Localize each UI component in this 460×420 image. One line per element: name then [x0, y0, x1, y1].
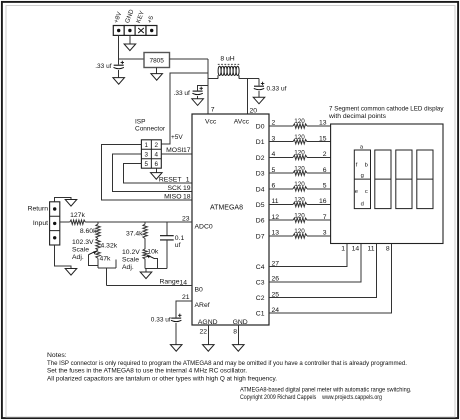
pin number 14 display: [352, 246, 360, 253]
pin number 23: [182, 215, 190, 222]
resistor R8 120: [293, 134, 307, 144]
wire 37.4k to 10k: [144, 239, 146, 249]
svg-text:ARef: ARef: [195, 302, 210, 309]
wire resistor to display segment g: [307, 219, 331, 221]
wire ADC0 rail to U1 pin 23: [85, 221, 192, 223]
svg-text:0.33 uf: 0.33 uf: [151, 316, 171, 323]
wire D2 to resistor: [269, 156, 293, 158]
pin number 4: [272, 151, 276, 158]
label segment dp: [332, 233, 340, 240]
wire Range to U1 pin 14 B0: [106, 285, 192, 287]
wire return pin to ground: [55, 198, 71, 202]
svg-text:e: e: [355, 189, 358, 195]
svg-text:AVcc: AVcc: [234, 118, 250, 125]
svg-text:D0: D0: [256, 124, 265, 131]
wire C1 to display pin 8: [269, 244, 392, 314]
svg-text:.33 uf: .33 uf: [95, 63, 111, 70]
svg-text:g: g: [361, 173, 364, 179]
svg-text:The ISP connector is only req: The ISP connector is only required to pr…: [47, 360, 407, 367]
svg-text:3: 3: [323, 230, 327, 237]
pin number 3: [323, 230, 327, 237]
svg-text:RESET: RESET: [159, 177, 182, 184]
wire D0 to resistor: [269, 125, 293, 127]
wire SCK from ISP pin3 to U1 pin19: [113, 154, 192, 192]
label D2: [256, 155, 265, 162]
wire chain bottom to range line: [105, 268, 107, 286]
svg-text:D4: D4: [256, 186, 265, 193]
wire MOSI from ISP pin4 to U1 pin17: [161, 153, 192, 155]
wire RESET from ISP pin5 to U1 pin1: [124, 163, 193, 183]
wire D3 to resistor: [269, 172, 293, 174]
label C2 value: [174, 90, 190, 97]
svg-text:Copyright 2009 Richard Cappels: Copyright 2009 Richard Cappels www.proje…: [240, 394, 382, 401]
svg-text:ADC0: ADC0: [195, 223, 213, 230]
svg-text:120: 120: [294, 118, 305, 125]
pin number 7: [211, 107, 215, 114]
svg-text:b: b: [365, 163, 368, 169]
wire rail to 37.4k: [144, 222, 146, 224]
resistor R13 120: [293, 212, 307, 222]
svg-text:19: 19: [183, 185, 191, 192]
svg-text:120: 120: [294, 150, 305, 157]
label 10.2V Scale Adj: [122, 249, 140, 271]
label C1: [256, 311, 265, 318]
svg-text:Scale: Scale: [122, 257, 139, 264]
svg-text:MOSI: MOSI: [166, 147, 183, 154]
wire MISO from ISP pin1 to U1 pin18: [102, 145, 193, 201]
svg-text:Notes:: Notes:: [47, 352, 67, 359]
svg-text:10.2V: 10.2V: [122, 249, 140, 256]
wire GND pin 8 to ground: [237, 325, 239, 344]
svg-text:127k: 127k: [70, 212, 85, 219]
svg-text:2: 2: [154, 142, 158, 149]
svg-text:120: 120: [294, 212, 305, 219]
svg-text:ISP: ISP: [135, 119, 145, 126]
svg-text:7: 7: [323, 214, 327, 221]
svg-text:13: 13: [319, 120, 327, 127]
ground: [113, 78, 125, 85]
wire D7 to resistor: [269, 235, 293, 237]
svg-text:37.4k: 37.4k: [126, 231, 143, 238]
label segment e: [332, 186, 336, 193]
svg-text:120: 120: [294, 165, 305, 172]
wire +5V to inductor: [208, 78, 218, 80]
svg-text:D5: D5: [256, 202, 265, 209]
resistor R12 120: [293, 197, 307, 207]
wiper arrow of 47k pot: [88, 251, 96, 255]
connector ISP 2x3 header: [141, 140, 161, 168]
wire C2 to display pin 11: [269, 244, 377, 298]
ground: [253, 97, 265, 104]
wire bottom rail to ground: [145, 269, 147, 272]
wire 7805 ground pin: [156, 68, 158, 74]
wire +5V branch to ISP connector: [161, 73, 208, 144]
label C1 value: [95, 63, 111, 70]
wire 10k wiper to bottom: [155, 259, 158, 269]
svg-text:5: 5: [144, 161, 148, 168]
svg-text:8: 8: [386, 246, 390, 253]
pin number 11: [272, 198, 279, 205]
wire inductor output: [239, 78, 259, 80]
svg-text:4.32k: 4.32k: [101, 243, 118, 250]
wire resistor to display segment e: [307, 188, 331, 190]
pin number 20: [250, 108, 258, 115]
wire resistor to display segment dp: [307, 235, 331, 237]
ground: [151, 173, 163, 180]
label SCK: [168, 185, 182, 192]
pin number 17: [183, 147, 191, 154]
wire ARef U1 pin 21: [176, 301, 192, 318]
label C3 value: [267, 85, 287, 92]
label segment b: [332, 139, 336, 146]
pin number 15: [319, 135, 327, 142]
resistor R1 127k: [70, 212, 86, 224]
label segment g: [332, 218, 336, 225]
ground: [151, 74, 163, 81]
ground: [124, 44, 136, 51]
svg-text:c: c: [365, 189, 368, 195]
ground: [65, 200, 77, 207]
pin number 7: [323, 214, 327, 221]
pin number 5: [323, 183, 327, 190]
display module outline: [331, 124, 443, 244]
svg-text:Connector: Connector: [135, 126, 166, 133]
svg-text:D7: D7: [256, 233, 265, 240]
capacitor C3 0.33 uf at AVcc: [254, 79, 264, 97]
ground: [233, 345, 245, 352]
ground: [203, 345, 215, 352]
label segment a: [332, 123, 336, 130]
wire D6 to resistor: [269, 219, 293, 221]
svg-text:7805: 7805: [149, 57, 164, 64]
wire 47k wiper loop: [88, 255, 98, 266]
segment letters on first digit: [355, 144, 368, 207]
label D3: [256, 171, 265, 178]
wire AGND pin 22 to ground: [207, 325, 209, 344]
svg-text:with decimal points: with decimal points: [328, 113, 387, 120]
capacitor C1 .33 uf at 7805 input: [114, 59, 125, 78]
wire to Vcc bypass cap: [198, 86, 208, 91]
svg-text:3: 3: [144, 152, 148, 159]
connector J1 power input header (+8V GND KEY +5): [113, 8, 157, 35]
svg-text:Adj.: Adj.: [72, 254, 84, 261]
svg-text:D6: D6: [256, 218, 265, 225]
svg-text:uf: uf: [175, 242, 181, 249]
svg-text:1: 1: [186, 177, 190, 184]
potentiometer R4 47k: [96, 250, 111, 262]
wire resistor to display segment d: [307, 172, 331, 174]
svg-text:102.3V: 102.3V: [72, 239, 94, 246]
wire rail to left divider chain: [97, 222, 99, 224]
resistor R9 120: [293, 150, 307, 160]
svg-text:1: 1: [341, 246, 345, 253]
wire ISP pin6 to ground: [155, 168, 157, 172]
svg-text:MISO: MISO: [164, 194, 181, 201]
svg-text:Input: Input: [33, 220, 48, 227]
pin number 6: [272, 183, 276, 190]
pin number 24: [272, 307, 280, 314]
svg-text:D2: D2: [256, 155, 265, 162]
svg-text:.33 uf: .33 uf: [174, 90, 190, 97]
capacitor C4 0.1 uf: [160, 222, 184, 268]
svg-text:8: 8: [233, 328, 237, 335]
pin number 5: [272, 167, 276, 174]
capacitor C5 0.33 uf at ARef: [171, 314, 182, 345]
pin number 27: [272, 260, 280, 267]
svg-text:21: 21: [182, 294, 190, 301]
pin number 14: [179, 279, 187, 286]
ground: [140, 272, 152, 279]
label +5V net: [171, 134, 183, 141]
wire chain bottom: [98, 258, 116, 268]
svg-text:14: 14: [179, 279, 187, 286]
resistor R3 4.32k: [96, 239, 118, 251]
wiper arrow of 10k pot: [147, 255, 155, 259]
label display title: [328, 105, 444, 120]
label D5: [256, 202, 265, 209]
pin number 1 display: [341, 246, 345, 253]
pin number 8: [233, 328, 237, 335]
svg-text:14: 14: [352, 246, 360, 253]
svg-text:B0: B0: [195, 287, 204, 294]
wire resistor to display segment b: [307, 141, 331, 143]
svg-text:0.1: 0.1: [175, 235, 185, 242]
label D1: [256, 139, 265, 146]
svg-text:GND: GND: [233, 319, 248, 326]
svg-text:6: 6: [323, 167, 327, 174]
wire +8V from J1 pin1 down to regulator input: [119, 35, 144, 58]
pin number 12: [272, 214, 280, 221]
title text: [240, 387, 412, 402]
svg-text:120: 120: [294, 228, 305, 235]
svg-text:1: 1: [144, 142, 148, 149]
svg-text:D3: D3: [256, 171, 265, 178]
svg-text:d: d: [361, 202, 364, 208]
svg-text:47k: 47k: [100, 255, 112, 262]
potentiometer R6 10k: [143, 249, 159, 259]
svg-text:120: 120: [294, 197, 305, 204]
regulator U2 7805: [144, 53, 170, 68]
label 102.3V Scale Adj: [72, 239, 94, 261]
wire J1 pin2 to ground: [129, 35, 131, 44]
pin number 2: [272, 120, 276, 127]
svg-text:22: 22: [200, 328, 208, 335]
label segment f: [332, 202, 334, 209]
svg-text:AGND: AGND: [198, 319, 218, 326]
svg-text:C2: C2: [256, 295, 265, 302]
label RESET: [159, 177, 182, 184]
svg-text:8.60k: 8.60k: [80, 228, 97, 235]
svg-text:11: 11: [367, 246, 374, 253]
label segment c: [332, 155, 335, 162]
label ISP Connector: [135, 119, 166, 133]
svg-text:5: 5: [323, 183, 327, 190]
label Range: [159, 278, 179, 285]
wire D4 to resistor: [269, 188, 293, 190]
svg-text:4: 4: [154, 152, 158, 159]
pin number 22: [200, 328, 208, 335]
pin number 19: [183, 185, 191, 192]
resistor R10 120: [293, 165, 307, 175]
wire input pin to 127k: [60, 221, 70, 223]
label C5 value: [151, 316, 171, 323]
label Return: [28, 206, 49, 213]
pin number 16: [319, 198, 327, 205]
svg-text:8 uH: 8 uH: [220, 56, 234, 63]
wire 7805 output to +5V rail: [170, 59, 209, 114]
capacitor C2 .33 uf at Vcc: [192, 87, 203, 99]
svg-text:16: 16: [319, 198, 327, 205]
pin number 26: [272, 276, 280, 283]
svg-text:ATMEGA8-based digital panel me: ATMEGA8-based digital panel meter with a…: [240, 387, 412, 394]
ground: [192, 99, 204, 106]
svg-text:Set the fuses in the ATMEGA8 t: Set the fuses in the ATMEGA8 to use the …: [47, 368, 247, 375]
pin number 2: [323, 151, 327, 158]
svg-text:C1: C1: [256, 311, 265, 318]
label segment d: [332, 170, 336, 177]
svg-text:D1: D1: [256, 139, 265, 146]
pin number 8 display: [386, 246, 390, 253]
wire resistor to display segment a: [307, 125, 331, 127]
svg-text:C3: C3: [256, 280, 265, 287]
label D0: [256, 124, 265, 131]
svg-text:All polarized capacitors are t: All polarized capacitors are tantalum or…: [47, 375, 277, 382]
svg-text:Return: Return: [28, 206, 49, 213]
wire 10k bottom rail: [145, 259, 167, 268]
svg-text:10k: 10k: [147, 249, 159, 256]
ground: [170, 345, 182, 352]
pin number 25: [272, 291, 280, 298]
wire AVcc pin 20: [246, 79, 248, 114]
svg-text:17: 17: [183, 147, 191, 154]
wire resistor to display segment f: [307, 204, 331, 206]
svg-text:23: 23: [182, 215, 190, 222]
label D6: [256, 218, 265, 225]
label MOSI: [166, 147, 183, 154]
svg-text:7: 7: [211, 107, 215, 114]
pin number 1: [186, 177, 190, 184]
svg-text:120: 120: [294, 181, 305, 188]
label D7: [256, 233, 265, 240]
svg-text:2: 2: [323, 151, 327, 158]
svg-text:Scale: Scale: [72, 247, 89, 254]
ground: [65, 269, 77, 276]
wire D5 to resistor: [269, 204, 293, 206]
svg-text:7 Segment common cathode LED d: 7 Segment common cathode LED display: [329, 105, 444, 112]
svg-text:SCK: SCK: [168, 185, 182, 192]
resistor R11 120: [293, 181, 307, 191]
label C2: [256, 295, 265, 302]
pin number 18: [183, 194, 191, 201]
pin number 13: [272, 230, 280, 237]
svg-text:120: 120: [294, 134, 305, 141]
wire J2 bottom pin to ground: [55, 245, 71, 268]
resistor R7 120: [293, 118, 307, 128]
pin number 11 display: [367, 246, 374, 253]
svg-text:Vcc: Vcc: [205, 118, 217, 125]
svg-text:ATMEGA8: ATMEGA8: [210, 204, 243, 211]
label C3: [256, 280, 265, 287]
seven segment digits: [354, 150, 433, 209]
svg-text:C4: C4: [256, 264, 265, 271]
resistor R5 37.4k: [126, 224, 147, 239]
label Input: [33, 220, 48, 227]
label C4: [256, 264, 265, 271]
pin number 6: [323, 167, 327, 174]
op-amp U1 ATMEGA8 microcontroller: [192, 114, 269, 326]
svg-text:+5V: +5V: [171, 134, 183, 141]
pin number 21: [182, 294, 190, 301]
svg-text:0.33 uf: 0.33 uf: [267, 85, 287, 92]
inductor L1 8 uH: [218, 56, 239, 79]
wire D1 to resistor: [269, 141, 293, 143]
connector J2 input terminal: [50, 202, 60, 245]
svg-text:15: 15: [319, 135, 327, 142]
svg-text:6: 6: [154, 161, 158, 168]
wire C3 to display pin 14: [269, 244, 361, 283]
svg-text:Adj.: Adj.: [122, 264, 134, 271]
pin number 3: [272, 135, 276, 142]
svg-text:Range: Range: [159, 278, 179, 285]
svg-text:18: 18: [183, 194, 191, 201]
label MISO: [164, 194, 181, 201]
pin number 13: [319, 120, 327, 127]
wire resistor to display segment c: [307, 156, 331, 158]
notes text: [47, 352, 407, 382]
wire C4 to display pin 1: [269, 244, 347, 267]
resistor R14 120: [293, 228, 307, 238]
label D4: [256, 186, 265, 193]
resistor R2 8.60k: [80, 224, 100, 239]
